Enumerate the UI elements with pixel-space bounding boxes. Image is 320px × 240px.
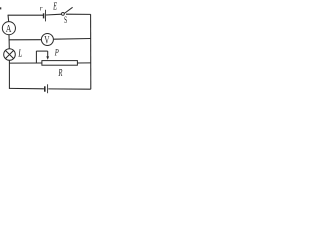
- ammeter A: [2, 22, 15, 36]
- wire top-right segment: [66, 13, 91, 15]
- edge tick: [0, 7, 1, 9]
- cell r (internal resistance cell): [44, 10, 46, 22]
- wire between ammeter and lamp: [8, 35, 10, 49]
- wire to rheostat (left branch): [9, 62, 42, 64]
- switch S lever: [64, 7, 72, 13]
- switch S contact: [62, 13, 65, 16]
- wire bottom-right segment: [48, 88, 91, 90]
- wire top-middle segment: [46, 13, 62, 16]
- wire left edge upper (top corner to ammeter): [7, 15, 10, 22]
- svg-text:A: A: [6, 24, 12, 35]
- wiper P arrow: [46, 51, 49, 60]
- wire right edge: [90, 14, 92, 89]
- svg-text:P: P: [54, 48, 59, 58]
- svg-text:V: V: [44, 34, 49, 47]
- battery cell (bottom): [45, 84, 48, 93]
- wire top-left segment: [8, 14, 43, 16]
- voltmeter V: [41, 34, 53, 48]
- rheostat R body: [42, 61, 78, 66]
- lamp L: [4, 49, 16, 61]
- svg-text:S: S: [64, 14, 67, 25]
- wire to voltmeter (left branch): [9, 39, 41, 41]
- wire rheostat to right edge: [77, 62, 90, 64]
- wire voltmeter to right edge: [54, 38, 91, 41]
- wire lamp to bottom corner: [8, 60, 10, 89]
- svg-text:r: r: [40, 4, 43, 12]
- svg-text:E: E: [52, 0, 57, 12]
- wire bottom-left segment: [9, 87, 44, 89]
- wiper top wire: [36, 50, 47, 52]
- svg-text:L: L: [17, 47, 22, 59]
- wiper riser wire: [35, 51, 37, 63]
- svg-text:R: R: [58, 66, 63, 78]
